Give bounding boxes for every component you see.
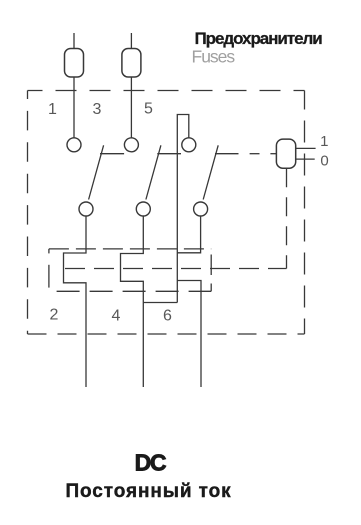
handle position line 1 — [296, 147, 316, 149]
switch blade pole 2 — [146, 145, 161, 199]
handle position line 0 — [296, 158, 315, 160]
lower hinge contact pole 2 — [136, 202, 150, 216]
fuse F2 — [122, 49, 141, 78]
switch blade pole 3 — [203, 145, 218, 199]
wire: fuse F2 to contact 3 — [130, 77, 132, 138]
wire: pole 3 jog to terminal 6 — [177, 281, 201, 388]
wire: pole 2 lower contact to terminal 4 (with jog) — [121, 216, 144, 387]
inner dashed mechanism box: left edge — [48, 249, 50, 254]
svg-text:2: 2 — [50, 307, 59, 324]
svg-text:Fuses: Fuses — [192, 47, 236, 67]
svg-text:4: 4 — [112, 308, 121, 325]
wire: series link pole 2 bottom to pole 3 feed — [143, 302, 177, 304]
lower hinge contact pole 1 — [79, 202, 93, 216]
svg-text:3: 3 — [93, 101, 102, 118]
wire: fuse F1 to contact 1 — [73, 77, 75, 138]
upper fixed contact pole 1 — [67, 138, 81, 152]
dashed drive link: vertical run below handle — [286, 168, 288, 268]
inner dashed mechanism box: top edge — [49, 248, 211, 250]
wire: pole 3 lower contact into mechanism — [177, 216, 200, 253]
inner dashed mechanism box: bottom edge — [57, 290, 212, 292]
svg-text:1: 1 — [320, 133, 328, 150]
outer dashed enclosure box: bottom edge — [28, 333, 305, 335]
inner dashed mechanism box: right edge — [210, 255, 212, 276]
svg-text:1: 1 — [48, 101, 57, 118]
svg-text:Постоянный ток: Постоянный ток — [66, 481, 232, 502]
svg-text:6: 6 — [163, 308, 172, 325]
outer dashed enclosure box: top edge — [28, 90, 305, 92]
upper fixed contact pole 3 — [182, 138, 196, 152]
outer dashed enclosure box: left edge — [27, 91, 29, 335]
handle / actuator — [276, 139, 295, 168]
switch blade pole 1 — [89, 145, 104, 199]
svg-text:5: 5 — [144, 101, 153, 118]
svg-text:DC: DC — [135, 450, 166, 476]
wire: top stub of fuse F2 — [130, 33, 132, 49]
upper fixed contact pole 2 — [124, 138, 138, 152]
mechanical link (dashed) blade level to handle — [100, 153, 124, 155]
fuse F1 — [65, 49, 84, 78]
wire: pole 1 lower contact to terminal 2 (with jog) — [64, 216, 87, 387]
dashed drive link: horizontal run to handle — [65, 268, 287, 270]
outer dashed enclosure box: right edge — [304, 91, 306, 335]
svg-text:Предохранители: Предохранители — [195, 29, 323, 48]
lower hinge contact pole 3 — [194, 202, 208, 216]
wire: feed loop to pole 3 (left leg, long vertical) — [177, 115, 189, 303]
wire: top stub of fuse F1 — [73, 33, 75, 49]
svg-text:0: 0 — [320, 153, 328, 170]
